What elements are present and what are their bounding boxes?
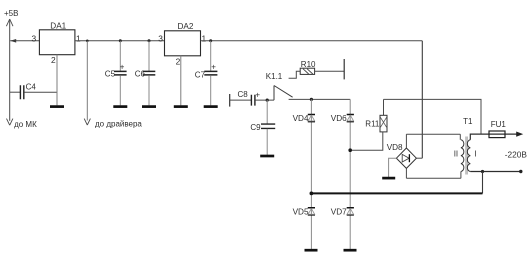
- capacitor C6: [143, 71, 156, 75]
- wire arrowhead into +5V rail: [10, 39, 16, 43]
- wire bridge top lead: [405, 134, 407, 148]
- wire switch to VD6 line: [289, 98, 351, 100]
- regulator DA2 box: [165, 31, 201, 56]
- wire C9 lead bottom: [266, 129, 268, 155]
- svg-text:+: +: [120, 63, 125, 72]
- svg-text:VD5: VD5: [293, 208, 309, 217]
- svg-text:1: 1: [76, 33, 81, 43]
- wire VD6/VD7 vertical: [349, 99, 351, 249]
- diode VD5: [308, 208, 315, 215]
- svg-text:3: 3: [158, 33, 163, 43]
- node R11 to VD6 junction: [348, 148, 352, 152]
- bridge rectifier VD8 diamond: [396, 148, 416, 168]
- node do MK down arrow: [7, 119, 13, 126]
- svg-text:до МК: до МК: [14, 120, 37, 129]
- wire VD4/VD5 vertical: [310, 99, 312, 249]
- wire fuse line: [470, 134, 517, 140]
- op-amp U1 / regulator DA1 box: [39, 30, 75, 55]
- svg-text:+5В: +5В: [4, 9, 18, 18]
- svg-text:C5: C5: [105, 69, 116, 78]
- wire R10 right: [315, 70, 345, 72]
- svg-text:VD6: VD6: [331, 114, 347, 123]
- node C6 junction: [148, 39, 151, 42]
- diode VD6: [347, 115, 354, 122]
- svg-text:+: +: [211, 62, 216, 71]
- svg-text:+: +: [255, 91, 260, 100]
- svg-text:2: 2: [176, 56, 181, 66]
- node lower return junction: [310, 192, 314, 196]
- wire R11 top lead: [383, 99, 385, 115]
- svg-text:I: I: [474, 150, 476, 159]
- terminal bar left of C8: [229, 94, 231, 107]
- wire do drivera down: [86, 41, 88, 121]
- node junction bottom right: [481, 170, 484, 173]
- wire bridge top to transformer: [406, 133, 460, 135]
- wire R11 bottom lead: [350, 132, 383, 150]
- wire C9 lead top: [266, 100, 268, 124]
- diode inside VD8: [402, 154, 409, 162]
- transformer T1 left lead top: [459, 134, 461, 140]
- capacitor C5: [114, 71, 127, 75]
- svg-text:R11: R11: [365, 120, 380, 129]
- svg-text:C8: C8: [238, 90, 249, 99]
- svg-text:3: 3: [32, 33, 37, 43]
- capacitor C8: [251, 95, 255, 106]
- wire top right vertical down to bridge: [421, 41, 423, 158]
- ground under C9: [260, 155, 274, 158]
- wire bridge left to ground: [389, 158, 397, 177]
- wire bridge right to vertical: [416, 157, 422, 159]
- svg-text:FU1: FU1: [491, 120, 507, 129]
- svg-text:C7: C7: [195, 71, 206, 80]
- capacitor C9: [261, 124, 275, 128]
- wire lower return (thick): [311, 192, 482, 194]
- wire R11 top row: [384, 99, 482, 134]
- svg-text:K1.1: K1.1: [266, 72, 283, 81]
- svg-text:до драйвера: до драйвера: [95, 119, 142, 128]
- wire C8 to switch: [255, 99, 274, 101]
- transformer core: [466, 137, 467, 175]
- ground under DA2: [174, 105, 188, 108]
- ground under VD5: [305, 249, 318, 252]
- fuse FU1: [489, 131, 505, 138]
- svg-text:C9: C9: [250, 123, 261, 132]
- node C5 junction: [119, 39, 122, 42]
- svg-text:-220В: -220В: [505, 149, 528, 159]
- wire right branch down: [482, 172, 484, 194]
- svg-text:DA2: DA2: [178, 22, 194, 31]
- node do drivera arrow: [84, 119, 90, 125]
- resistor R11: [380, 115, 387, 132]
- node end dot 220V: [519, 170, 522, 173]
- ground under DA1: [50, 105, 64, 108]
- svg-text:2: 2: [51, 55, 56, 65]
- wire main rail DA1 to DA2: [75, 40, 165, 42]
- svg-text:VD8: VD8: [387, 143, 403, 152]
- svg-text:1: 1: [202, 33, 207, 43]
- switch K1.1 lever: [274, 86, 293, 98]
- wire R10 left contact: [289, 71, 301, 78]
- wire C5 lead top: [119, 41, 121, 71]
- ground at bridge: [382, 177, 395, 180]
- node C7 junction: [209, 39, 212, 42]
- svg-text:II: II: [454, 150, 458, 159]
- wire bottom 220V line: [470, 171, 521, 173]
- arrowhead 220V line: [516, 132, 523, 137]
- wire C4 branch: [10, 91, 20, 93]
- node do drivera junction: [86, 40, 89, 43]
- capacitor C4: [20, 85, 23, 99]
- ground under C6: [142, 105, 156, 108]
- svg-text:DA1: DA1: [50, 22, 66, 31]
- diode VD7: [347, 208, 354, 215]
- wire C4 to pin2: [24, 91, 57, 93]
- wire DA2 pin2 down: [180, 56, 182, 106]
- wire DA1 pin3 input: [10, 40, 39, 42]
- node +5V up arrow: [6, 19, 13, 26]
- wire +5V vertical rail: [9, 20, 11, 121]
- svg-text:T1: T1: [463, 117, 473, 126]
- ground under C7: [204, 105, 218, 108]
- ground under C5: [113, 105, 127, 108]
- wire C7 lead top: [210, 41, 212, 71]
- node VD4 junction: [310, 98, 313, 101]
- capacitor C7: [204, 71, 217, 75]
- wire C6 lead top: [148, 41, 150, 71]
- terminal bar right of R10: [343, 59, 345, 79]
- wire C8 left lead: [230, 99, 251, 101]
- switch K1.1 post: [273, 86, 275, 101]
- wire bridge bottom lead: [405, 168, 407, 178]
- svg-text:VD7: VD7: [331, 208, 347, 217]
- svg-text:VD4: VD4: [293, 114, 309, 123]
- ground under VD7: [344, 249, 357, 252]
- wire main rail DA2 pin1 to right: [201, 40, 423, 42]
- wire bridge bottom to transformer: [406, 177, 461, 179]
- diode VD4: [308, 115, 315, 122]
- wire C5 lead bottom: [119, 75, 121, 105]
- wire C6 lead bottom: [148, 75, 150, 105]
- svg-text:C6: C6: [135, 69, 146, 78]
- transformer T1 winding I: [467, 140, 470, 172]
- svg-text:C4: C4: [26, 83, 37, 92]
- wire C7 lead bottom: [210, 75, 212, 105]
- node C9 junction: [266, 99, 269, 102]
- transformer T1 winding II: [461, 140, 464, 172]
- transformer T1 left lead bottom: [460, 172, 462, 179]
- wire DA1 pin2 down: [56, 55, 58, 106]
- resistor R10: [300, 68, 314, 74]
